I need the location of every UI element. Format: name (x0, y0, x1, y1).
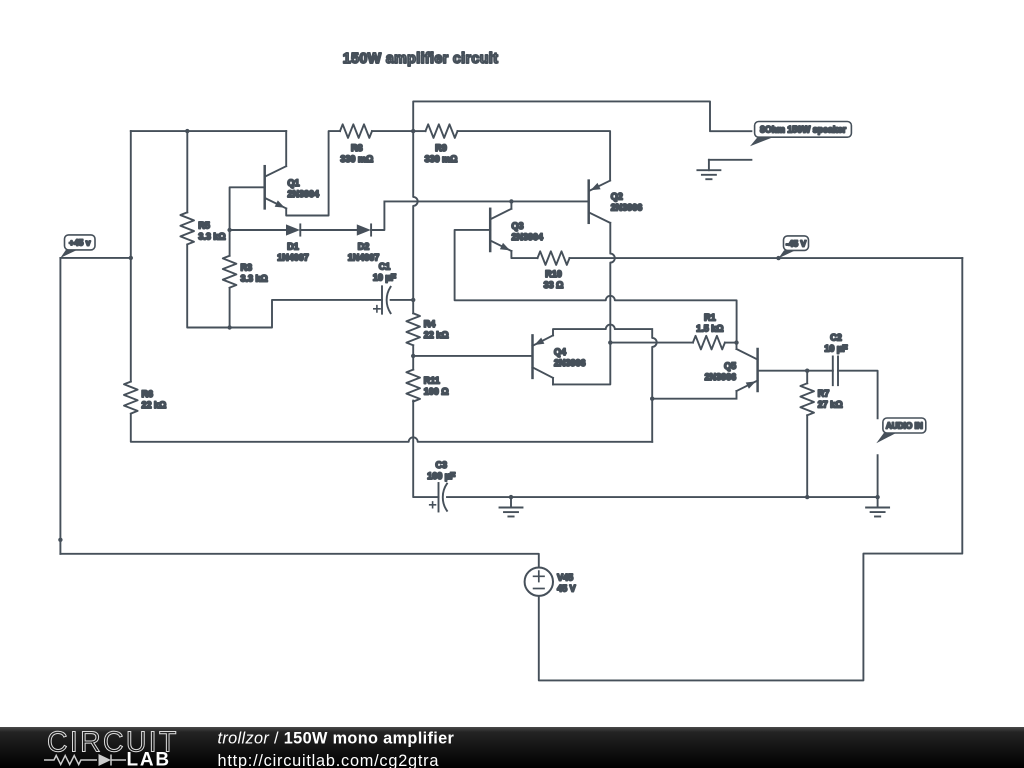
resistor R7 (800, 383, 842, 415)
resistor R11 (406, 370, 448, 402)
wire output top rail (413, 101, 751, 131)
ground audio (866, 497, 889, 516)
svg-text:2N3904: 2N3904 (288, 189, 320, 199)
svg-text:3.3 kΩ: 3.3 kΩ (241, 274, 268, 284)
svg-text:8Ohm 150W speaker: 8Ohm 150W speaker (760, 125, 847, 135)
node audio ground junction (875, 495, 879, 499)
wire +45 flag to bus (60, 257, 130, 259)
capacitor C2 (824, 332, 848, 385)
svg-text:R5: R5 (198, 221, 210, 231)
svg-text:10 µF: 10 µF (824, 343, 848, 353)
wire V45 negative loop (539, 258, 963, 680)
ground speaker (697, 160, 720, 179)
wire R1 left (610, 342, 693, 344)
svg-text:Q3: Q3 (512, 221, 524, 231)
svg-text:C2: C2 (830, 332, 842, 342)
svg-text:R8: R8 (351, 143, 363, 153)
node left supply (58, 538, 62, 542)
svg-text:1N4007: 1N4007 (348, 252, 380, 262)
wire D1 anode (230, 229, 286, 231)
node R8/R9 junction (411, 129, 415, 133)
ground C3 (500, 497, 523, 516)
wire Q4 base (413, 355, 532, 357)
svg-text:D1: D1 (287, 241, 299, 251)
wire R3 top stub (229, 230, 231, 256)
flag speaker output (750, 122, 851, 147)
svg-text:-45 V: -45 V (786, 238, 807, 248)
node C1/R4 junction (411, 298, 415, 302)
wire Q4 emitter loop (553, 325, 657, 442)
svg-text:V45: V45 (557, 573, 573, 583)
node Q2 collector / feedback junction (608, 340, 612, 344)
svg-text:R6: R6 (142, 389, 154, 399)
wire C3 to audio ground (447, 496, 878, 498)
svg-text:C1: C1 (379, 262, 391, 272)
wire audio input lower (877, 455, 879, 497)
svg-text:2N3906: 2N3906 (611, 203, 643, 213)
node R3 bottom junction (227, 325, 231, 329)
svg-text:R9: R9 (435, 143, 447, 153)
wire Q5 emitter (652, 391, 736, 399)
svg-text:10 µF: 10 µF (373, 273, 397, 283)
svg-text:R11: R11 (424, 376, 440, 386)
wire -45 rail (511, 251, 962, 258)
flag -45 V (779, 236, 809, 258)
wire R9 to Q2 emitter (458, 131, 611, 181)
wire R4 bottom to R11 top (412, 345, 414, 369)
diode D2 (348, 224, 380, 262)
svg-text:100 Ω: 100 Ω (424, 387, 449, 397)
wire R11 bottom to C3 (413, 401, 438, 498)
node +45 rail / R5 junction (185, 129, 189, 133)
svg-text:1.5 kΩ: 1.5 kΩ (696, 324, 723, 334)
svg-text:3.3 kΩ: 3.3 kΩ (198, 232, 225, 242)
wire R7 bottom stub (806, 415, 808, 497)
svg-text:R10: R10 (545, 269, 562, 279)
wire center vertical R8R9 to C1 (413, 131, 418, 300)
node R7 top junction (805, 369, 809, 373)
node R7 bottom junction (805, 495, 809, 499)
voltage source V45 (525, 568, 576, 596)
svg-text:Q4: Q4 (554, 347, 566, 357)
svg-text:R1: R1 (704, 313, 716, 323)
svg-text:330 mΩ: 330 mΩ (425, 154, 458, 164)
node C3 ground junction (509, 495, 513, 499)
transistor Q1 (265, 131, 319, 208)
wire R1 right (725, 342, 737, 344)
node Q1 base / D1 junction (227, 228, 231, 232)
wire R5 bottom to C1 (187, 246, 382, 328)
wire bottom left rail (60, 554, 538, 568)
capacitor C1 (373, 262, 397, 314)
svg-text:D2: D2 (358, 241, 370, 251)
wire R5 top stub (186, 131, 188, 212)
resistor R6 (124, 382, 166, 414)
svg-text:trollzor / 150W mono amplifier: trollzor / 150W mono amplifier (218, 729, 455, 747)
capacitor C3 (427, 460, 456, 512)
svg-text:45 V: 45 V (557, 584, 576, 594)
wire Q5 base to C2 (758, 370, 833, 372)
wire D1 to D2 (300, 229, 357, 231)
svg-text:http://circuitlab.com/cg2gtra: http://circuitlab.com/cg2gtra (218, 752, 440, 768)
resistor R10 (538, 251, 570, 290)
flag AUDIO IN (876, 418, 926, 443)
svg-text:330 mΩ: 330 mΩ (340, 154, 373, 164)
wire left vertical bus (130, 131, 132, 382)
resistor R3 (223, 256, 268, 288)
wire Q4 collector stub (552, 378, 554, 385)
resistor R5 (180, 212, 225, 244)
wire C2 to audio input (838, 371, 878, 419)
svg-text:Q2: Q2 (611, 192, 623, 202)
node +45 bus tap (129, 256, 133, 260)
CircuitLab logo (44, 727, 179, 768)
transistor Q3 (490, 201, 543, 251)
svg-text:22 kΩ: 22 kΩ (142, 400, 167, 410)
wire D2 to Q3 base rail (371, 201, 589, 230)
node Q5 emitter junction (650, 397, 654, 401)
svg-text:100 µF: 100 µF (427, 471, 456, 481)
wire Q2 collector vertical (553, 223, 615, 385)
resistor R4 (406, 313, 448, 345)
svg-text:2N3906: 2N3906 (554, 358, 586, 368)
svg-text:1N4007: 1N4007 (277, 252, 309, 262)
wire R7 top stub (806, 371, 808, 384)
transistor Q2 (589, 181, 643, 223)
diode D1 (277, 224, 309, 262)
node -45 flag tap (776, 256, 780, 260)
node Q3 collector junction (509, 199, 513, 203)
svg-text:2N3906: 2N3906 (705, 372, 737, 382)
wire left supply drop (59, 258, 61, 554)
transistor Q5 (705, 343, 758, 391)
wire R8 to junction (372, 130, 413, 132)
node R1 / Q5 collector junction (734, 340, 738, 344)
resistor R9 (425, 124, 458, 164)
svg-text:150W amplifier circuit: 150W amplifier circuit (343, 51, 499, 67)
svg-text:AUDIO IN: AUDIO IN (886, 422, 923, 431)
wire R9 left stub (413, 130, 425, 132)
svg-text:C3: C3 (436, 460, 448, 470)
svg-text:R7: R7 (818, 389, 830, 399)
footer credits (218, 729, 455, 768)
svg-text:33 Ω: 33 Ω (544, 280, 564, 290)
svg-text:Q1: Q1 (288, 178, 300, 188)
resistor R8 (340, 124, 373, 164)
node R4/R11 junction (411, 354, 415, 358)
svg-text:+45 v: +45 v (69, 238, 91, 248)
transistor Q4 (533, 335, 586, 378)
svg-text:Q5: Q5 (724, 361, 736, 371)
wire R3 bottom stub (229, 288, 231, 327)
wire R4 top stub (412, 300, 414, 313)
flag +45 v (60, 235, 95, 258)
svg-text:LAB: LAB (127, 750, 171, 768)
svg-text:2N3904: 2N3904 (512, 232, 544, 242)
wire Q1 emitter to R8 (286, 131, 340, 215)
footer bar (0, 727, 1024, 768)
wire speaker ground (709, 159, 752, 161)
svg-text:22 kΩ: 22 kΩ (424, 330, 449, 340)
svg-text:27 kΩ: 27 kΩ (818, 400, 843, 410)
wire C1 to center (391, 299, 414, 301)
wire +45 rail top (131, 130, 286, 132)
wire Q3 base loop (455, 230, 737, 343)
resistor R1 (693, 313, 725, 350)
wire Q1 base (230, 187, 265, 230)
svg-text:R3: R3 (241, 263, 253, 273)
title (343, 51, 499, 67)
wire bottom feedback rail (131, 415, 652, 442)
svg-text:R4: R4 (424, 319, 436, 329)
